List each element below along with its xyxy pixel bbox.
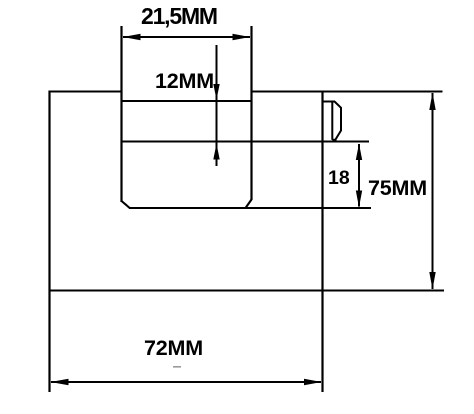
body top edge right segment + 75MM top extension line (251, 90, 443, 92)
stray faint dash artifact below 72MM area (173, 366, 181, 368)
svg-text:75MM: 75MM (368, 176, 427, 200)
keyway detail on right edge (323, 102, 342, 140)
dimension 72MM line with arrows (51, 379, 322, 385)
slot bottom-right chamfer (246, 200, 252, 209)
dimension 75MM line with arrows (429, 93, 435, 290)
svg-text:18: 18 (328, 167, 350, 189)
slot inner line upper (12MM top reference) (121, 100, 253, 102)
slot bottom-left chamfer (122, 201, 130, 208)
dimension 18 line with arrows (356, 144, 362, 208)
body right edge + 72MM right extension line (321, 91, 323, 393)
svg-text:21,5MM: 21,5MM (141, 3, 217, 29)
slot inner line lower (12MM bottom / 18 top reference) (121, 140, 370, 142)
body left edge + 72MM left extension line (48, 91, 50, 393)
dimension 21,5MM line with arrows (123, 34, 250, 40)
body bottom edge + 75MM bottom extension line (49, 289, 445, 291)
dimension 12MM line with arrows (213, 45, 219, 166)
svg-text:12MM: 12MM (155, 69, 214, 93)
slot left edge + 21,5MM left extension line (120, 26, 122, 202)
body top edge left segment (49, 90, 123, 92)
slot bottom edge + 18 bottom extension line (129, 207, 371, 209)
svg-text:72MM: 72MM (144, 336, 203, 360)
slot right edge + 21,5MM right extension line (250, 26, 252, 200)
